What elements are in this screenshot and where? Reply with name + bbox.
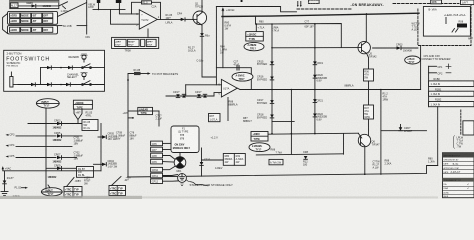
- power bus +V (y=13.5 thick): [222, 13, 419, 16]
- wire (diagonal J1 to node): [58, 3, 87, 17]
- node CP3: [6, 133, 57, 136]
- wire (x=420.6 up to breakaway): [420, 46, 422, 90]
- wire (diagonal to box A): [67, 178, 82, 187]
- oval connector INPUT (upper): [36, 99, 59, 108]
- capacitor C8 label: [130, 132, 138, 141]
- label R12 47A: [383, 93, 389, 102]
- label R84: [220, 46, 227, 55]
- dashed box (top small): [309, 0, 320, 4]
- wire (to linear box): [128, 111, 159, 126]
- resistor box R1.05: [82, 120, 98, 131]
- label CHANNEL SELECT: [67, 73, 80, 79]
- wire (y=130.7 right link): [381, 130, 427, 132]
- diode pair CR05 CR04 (x=104): [94, 133, 118, 169]
- terminal grid box A: [64, 187, 82, 198]
- label Q1 TIP120: [195, 2, 204, 8]
- wire (channel line y=84.5): [18, 84, 105, 86]
- node dots on lower bus: [271, 133, 316, 135]
- diode CRB: [68, 66, 72, 69]
- wire (bracket left of J1 J2): [3, 14, 8, 34]
- oval note (2.2 OHM TR1): [244, 42, 264, 50]
- diode CR03 row (y=123.5): [28, 120, 82, 130]
- resistor box A.kA 1W: [269, 159, 283, 164]
- resistor bar R1B0: [429, 81, 474, 87]
- connector CP8: [151, 153, 176, 159]
- wire (U1 pin2 to TR08): [147, 29, 149, 37]
- wire (x=437.7 up to bars): [437, 107, 439, 166]
- dashed net (breakaway right segment): [393, 3, 459, 5]
- resistor box R1.B7: [77, 167, 94, 178]
- wire (U2 pin5 input): [186, 84, 222, 86]
- connector CP9: [151, 159, 175, 164]
- connector CP12: [151, 179, 179, 184]
- box +MODE TYPE: [73, 100, 92, 109]
- diode CR1: [32, 4, 36, 7]
- label CR19-CR22: [317, 62, 328, 122]
- box +18VDC TYPE: [246, 32, 263, 42]
- label R80 +.TLA: [258, 21, 280, 33]
- black tick (top): [241, 0, 243, 2]
- wire (node rail y=9.4): [93, 8, 125, 10]
- jack J3 (footswitch plug): [10, 72, 18, 87]
- label +12V R7B 3W: [84, 176, 91, 185]
- wire (input line x=46 down): [45, 108, 47, 188]
- ground bus (bottom y=174.5): [128, 166, 438, 178]
- wire (x=380.9 vertical): [380, 89, 382, 175]
- diode CRC: [31, 83, 35, 86]
- label J1 pins: [10, 15, 48, 24]
- wire (vertical x=216 to U2 input): [215, 7, 217, 85]
- wire (x=101 vertical): [100, 124, 102, 171]
- connector CP7: [151, 147, 171, 152]
- label R88 888RLA: [229, 100, 238, 106]
- node CP5: [6, 155, 57, 158]
- diode CR07 row (y=157.5): [53, 154, 77, 164]
- wire (CR12 to R80 box): [202, 159, 224, 161]
- wire SC.JVB: [58, 25, 87, 27]
- lower bus (y=133.6): [268, 133, 359, 134]
- wire (Q5 base right with diode): [373, 47, 397, 49]
- switch SW1: [60, 64, 91, 69]
- wire (R07 to Q6): [368, 119, 370, 136]
- wire (below U2): [227, 98, 229, 121]
- diode CRA: [47, 66, 51, 69]
- resistor box R8 1.07LA: [209, 114, 221, 122]
- diode CR03 (1N5408): [397, 46, 418, 49]
- op-amp U1A: [136, 10, 160, 29]
- wire (corner down x=291.4): [291, 89, 293, 155]
- wire (to U1 pin3): [119, 9, 139, 14]
- op-amp U2: [219, 79, 238, 97]
- node +VAC: [2, 166, 101, 180]
- wire (U2 pin6 input): [214, 93, 221, 96]
- diode CR4: [181, 18, 193, 21]
- capacitor C02 label: [74, 152, 84, 161]
- diode CR10: [176, 94, 180, 97]
- node CP2: [429, 73, 451, 76]
- oval note (A-BVAC TR1): [232, 72, 253, 81]
- wire (U1 feedback loop): [132, 2, 161, 19]
- label R8 888RL 1W: [243, 117, 252, 123]
- label 2-BUTTON FOOTSWITCH: [6, 52, 50, 68]
- label CP1 AND CP2 CONNECT TO SPEAKER: [422, 55, 451, 61]
- label R88 2.2KA: [385, 160, 392, 166]
- wire (Q5 emitter to R06): [367, 53, 369, 69]
- transistor Q5: [272, 13, 370, 54]
- connector TR08 (under U1): [112, 37, 159, 48]
- diode column CR15-CR18 (x=270): [270, 23, 274, 133]
- label Q5 TIP142: [369, 52, 378, 58]
- wire (x=128 vertical): [127, 79, 129, 177]
- wire (inside K1): [18, 5, 58, 7]
- label Q6 TIP147: [372, 140, 381, 146]
- wire (input line y=96 with diodes): [166, 85, 214, 96]
- label CR03 1N5408: [396, 43, 412, 52]
- capacitor C01 label: [74, 136, 84, 145]
- wire (K1 output split): [59, 2, 68, 9]
- label R1.05 47RL: [86, 112, 93, 118]
- diode CR2: [200, 33, 204, 36]
- resistor R2 (feedback): [142, 1, 152, 5]
- resistor R07: [364, 105, 374, 119]
- title block: [443, 153, 474, 198]
- terminal grid box B: [109, 186, 126, 196]
- diode CR13: [203, 94, 207, 97]
- capacitor C1 (black blob top): [97, 0, 101, 10]
- transistor Q6: [358, 134, 370, 175]
- diode CRE: [66, 83, 70, 86]
- label R1.05 1W: [166, 14, 173, 24]
- arrows (down pair): [297, 2, 302, 8]
- scanner shadow band: [0, 196, 438, 199]
- ground symbol: [1, 192, 8, 196]
- box R8B (top edge): [431, 0, 442, 4]
- wire (x=428.6 bars spine): [428, 66, 430, 106]
- connector CP6: [151, 141, 171, 146]
- diode column CR19-CR22 (x=313.5): [313, 23, 317, 134]
- node +41V arrow: [222, 7, 236, 12]
- diode CRD: [47, 83, 51, 86]
- wire (U2 feedback top): [216, 68, 251, 90]
- oval note (2.2BHML): [249, 143, 270, 152]
- capacitor C2 (black blob top): [116, 0, 122, 10]
- oval note (+.25AC TYPE): [405, 56, 421, 64]
- wire (R06 to R07): [368, 81, 370, 105]
- connector J2 (1-row header): [8, 26, 58, 34]
- chassis ground G1: [178, 174, 187, 186]
- diode CR09 row (y=168.3): [46, 164, 77, 179]
- box LAST (top right corner): [461, 0, 474, 5]
- resistor R06: [364, 69, 374, 81]
- diode CR11: [182, 94, 186, 97]
- node CP4: [6, 144, 73, 147]
- wire (distribution rail y=16.3): [256, 16, 342, 47]
- resistor bar R1B1: [429, 91, 474, 96]
- capacitor C08 label: [116, 132, 126, 141]
- label R80 1.JKA: [428, 157, 435, 163]
- connector J1 (2-row header): [8, 11, 58, 24]
- label CR1 CR1: [173, 91, 202, 94]
- diode CR05 row (y=135.9): [53, 132, 83, 142]
- wire (top rail from x=216): [216, 7, 296, 12]
- diode CR (to ground): [3, 181, 7, 192]
- callout squiggle (stake-on): [186, 180, 208, 186]
- footswitch schematic box: [4, 50, 105, 91]
- main bus (U2 output y=89.5): [237, 88, 420, 89]
- diode CR09 (right link): [399, 125, 413, 134]
- transistor Q1: [193, 0, 207, 25]
- label WCTW stack: [412, 23, 421, 32]
- node dot (Q6 emitter to bus): [364, 173, 366, 175]
- label P1.02: [15, 187, 29, 190]
- fuse box F1: [171, 126, 199, 153]
- wire (x=202 down to U2 region): [202, 36, 216, 77]
- funnel node (+MB): [74, 109, 82, 123]
- connector box (speaker breakaway): [423, 7, 470, 37]
- diode CR12: [197, 94, 201, 97]
- capacitor C27 (on feedback): [234, 61, 240, 70]
- lamp DS1: [81, 54, 87, 62]
- box +18DC TYPE: [251, 132, 268, 142]
- label R1.2 1K2: [188, 47, 196, 53]
- resistor bar R1B2: [429, 102, 474, 107]
- dashed box (breakaway enclosure): [418, 4, 471, 46]
- power entry MF1: [174, 153, 186, 173]
- dashed net (right column): [460, 110, 462, 135]
- label C27 60F: [305, 20, 315, 28]
- capacitor C10 2.2uF label: [156, 115, 163, 121]
- relay box K1 (top-left): [10, 0, 59, 8]
- wire (U1 output): [157, 18, 180, 20]
- oval connector INPUT (lower): [41, 185, 62, 196]
- label C TW R1.2: [373, 161, 381, 170]
- diode CR8: [303, 151, 309, 166]
- box LINEAR TYPE: [138, 107, 153, 115]
- dashed net (breakaway left segment): [297, 8, 351, 10]
- wire (y=154.2 rail): [256, 154, 343, 155]
- wire (to U1 pin2): [111, 9, 140, 24]
- switch SW2: [60, 81, 91, 86]
- node CP1: [429, 64, 451, 69]
- label VELW LPW: [88, 3, 96, 9]
- wire (to pot brackets): [128, 72, 151, 80]
- label J2 pins: [10, 29, 48, 32]
- wire (CR12 branch): [200, 148, 211, 176]
- connector CP10: [151, 166, 176, 172]
- label C U stack: [454, 136, 464, 149]
- label CR15-CR18: [257, 60, 267, 119]
- wire (vertical net at x=86.7): [86, 0, 88, 34]
- wire (link vertical x=40.5): [40, 68, 42, 85]
- wire (Q1 emitter down): [201, 25, 203, 33]
- connector CP11: [151, 173, 178, 178]
- wire (x=256.3 drop): [255, 23, 257, 31]
- resistor R80 (vertical): [223, 11, 231, 67]
- label R88 kA: [271, 149, 283, 155]
- wire (x=343.5 up): [343, 134, 345, 155]
- wire (diagonal to box B): [112, 177, 130, 186]
- wire (column bottoms link y=121.4): [272, 120, 294, 122]
- box (right mid): [463, 121, 474, 135]
- resistor box R80 R31: [223, 154, 245, 166]
- lamp DS2: [81, 73, 87, 80]
- wire (reverb line y=67.6): [41, 67, 105, 69]
